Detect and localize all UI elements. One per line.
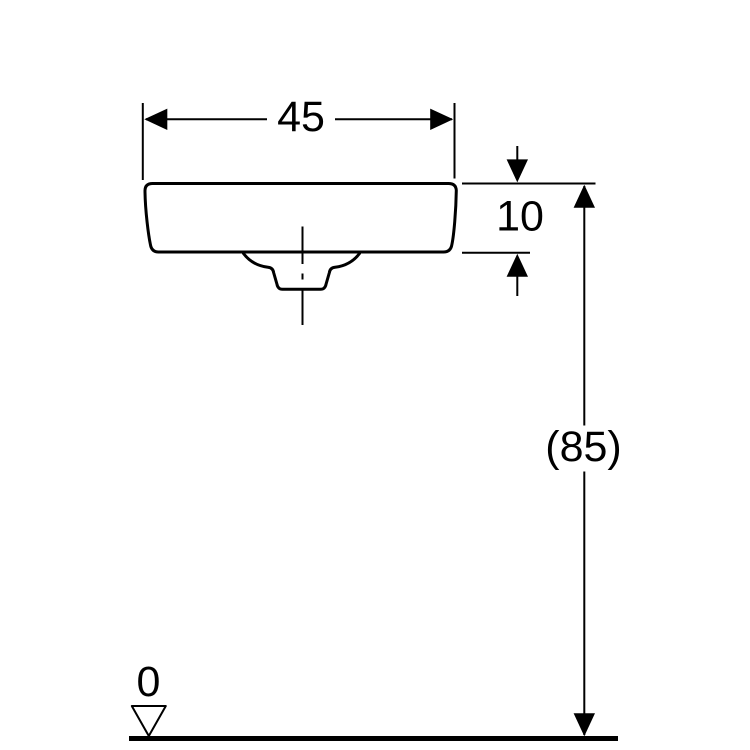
svg-text:45: 45 (277, 93, 325, 141)
dimension 10: upper arrow tail (516, 146, 518, 163)
washbasin drain trap outline (244, 254, 360, 290)
dimension 10: bottom extension line (462, 252, 530, 254)
washbasin centerline (302, 227, 304, 326)
dimension 45: right extension line (454, 103, 456, 179)
dimension 10: top extension line (462, 183, 596, 185)
dimension 10: upper arrowhead pointing down (507, 159, 528, 182)
dimension 85: vertical dimension line lower segment (583, 472, 585, 736)
dimension 45: dimension line left segment (146, 118, 267, 120)
dimension 45: left arrowhead (144, 109, 167, 130)
floor line (129, 736, 618, 741)
svg-text:0: 0 (137, 658, 161, 706)
svg-text:10: 10 (496, 192, 544, 240)
washbasin outline (145, 184, 456, 253)
dimension 85: top arrowhead pointing up (574, 185, 595, 208)
dimension 85: bottom arrowhead pointing down (574, 713, 595, 736)
datum level triangle symbol (132, 706, 166, 736)
svg-text:(85): (85) (545, 423, 621, 471)
dimension 45: dimension line right segment (335, 118, 452, 120)
dimension 10: lower arrowhead pointing up (507, 254, 528, 277)
dimension 10: lower arrow tail (516, 275, 518, 296)
dimension 85: vertical dimension line upper segment (583, 186, 585, 426)
dimension 45: right arrowhead (430, 109, 453, 130)
dimension 45: left extension line (142, 103, 144, 180)
